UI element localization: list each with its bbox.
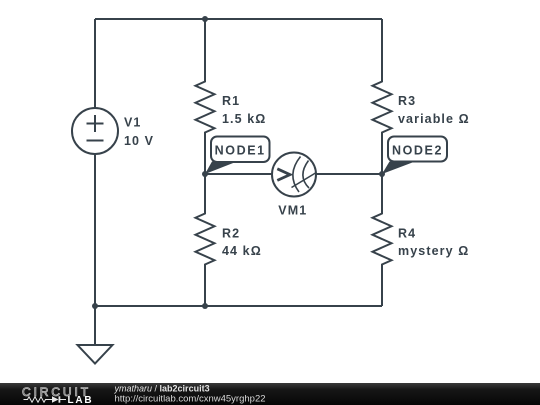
svg-text:variable Ω: variable Ω: [398, 112, 470, 126]
svg-text:V1: V1: [124, 116, 142, 130]
svg-text:R2: R2: [222, 227, 240, 241]
svg-text:http://circuitlab.com/cxnw45yr: http://circuitlab.com/cxnw45yrghp22: [115, 394, 266, 405]
svg-text:LAB: LAB: [68, 395, 94, 405]
svg-text:NODE2: NODE2: [392, 144, 443, 158]
svg-text:R1: R1: [222, 94, 240, 108]
svg-text:VM1: VM1: [278, 204, 307, 218]
svg-text:mystery Ω: mystery Ω: [398, 244, 469, 258]
svg-text:R4: R4: [398, 227, 416, 241]
svg-text:NODE1: NODE1: [215, 144, 266, 158]
svg-text:10 V: 10 V: [124, 134, 154, 148]
svg-text:ymatharu / lab2circuit3: ymatharu / lab2circuit3: [114, 384, 210, 394]
svg-text:1.5 kΩ: 1.5 kΩ: [222, 112, 266, 126]
svg-text:44 kΩ: 44 kΩ: [222, 244, 262, 258]
svg-text:R3: R3: [398, 94, 416, 108]
